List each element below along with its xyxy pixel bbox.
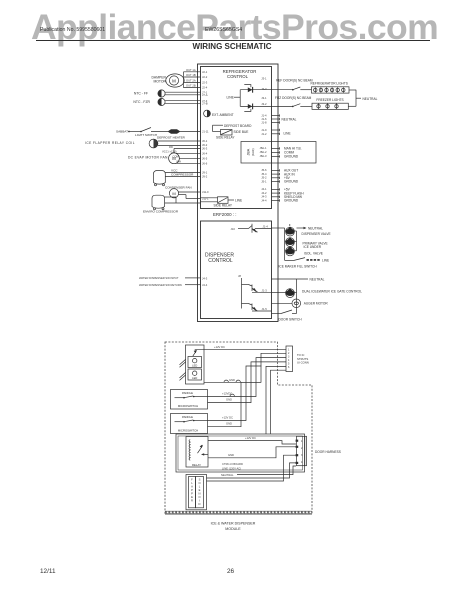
svg-text:J4-4: J4-4 bbox=[202, 283, 208, 287]
svg-text:J1-3: J1-3 bbox=[262, 288, 268, 292]
dc evap motor fan M2 bbox=[128, 145, 201, 164]
svg-text:E: E bbox=[199, 488, 201, 492]
dispenser control box bbox=[201, 221, 272, 319]
svg-text:J4-4: J4-4 bbox=[261, 198, 267, 202]
svg-text:LINE: LINE bbox=[322, 258, 329, 262]
svg-text:(AUX): (AUX) bbox=[251, 148, 255, 156]
dispenser valve stack bbox=[272, 224, 331, 260]
paddle microswitch 2 bbox=[171, 414, 208, 434]
svg-text:MODULE: MODULE bbox=[225, 527, 241, 531]
outer control enclosure bbox=[198, 64, 279, 322]
svg-text:O: O bbox=[198, 481, 200, 485]
svg-text:J4-3: J4-3 bbox=[202, 276, 208, 280]
led assembly box bbox=[180, 345, 205, 384]
svg-text:J6-4: J6-4 bbox=[202, 151, 208, 155]
svg-text:ICE MAKER FILL SWITCH: ICE MAKER FILL SWITCH bbox=[279, 264, 318, 268]
svg-text:LIGHT SWITCH: LIGHT SWITCH bbox=[135, 133, 157, 137]
svg-text:DISPENSER VALVE: DISPENSER VALVE bbox=[302, 232, 331, 236]
svg-text:J4-3: J4-3 bbox=[261, 195, 267, 199]
svg-text:J1-5: J1-5 bbox=[262, 307, 268, 311]
condenser fan M3 bbox=[165, 186, 201, 199]
header rule bbox=[36, 40, 430, 42]
svg-text:COM: COM bbox=[173, 155, 180, 159]
svg-text:EXT. AMBIENT: EXT. AMBIENT bbox=[212, 113, 234, 117]
svg-text:N: N bbox=[199, 492, 201, 496]
svg-text:DOOR SWITCH: DOOR SWITCH bbox=[279, 317, 303, 321]
svg-text:E: E bbox=[191, 495, 193, 499]
svg-text:GND: GND bbox=[229, 378, 235, 382]
svg-text:J5-2: J5-2 bbox=[261, 176, 267, 180]
svg-text:DEFROST HEATER: DEFROST HEATER bbox=[157, 135, 186, 139]
svg-text:NTC - FZR: NTC - FZR bbox=[133, 100, 150, 104]
svg-text:S: S bbox=[199, 478, 201, 482]
dispenser neutral bus bbox=[272, 278, 325, 314]
svg-text:DOOR HARNESS: DOOR HARNESS bbox=[315, 450, 341, 454]
refrigerator control box bbox=[201, 67, 272, 209]
svg-text:UI CONN: UI CONN bbox=[297, 361, 309, 365]
svg-text:GND: GND bbox=[226, 398, 232, 402]
control board box bbox=[176, 434, 305, 472]
svg-text:J6-2: J6-2 bbox=[202, 143, 208, 147]
svg-text:EW26SS65GS4: EW26SS65GS4 bbox=[205, 27, 242, 33]
defrost board bbox=[213, 124, 253, 132]
J8A connector box bbox=[241, 142, 316, 164]
svg-text:J5-4: J5-4 bbox=[261, 172, 267, 176]
svg-text:WH: WH bbox=[177, 160, 182, 164]
refrigerator door beam switch bbox=[272, 78, 313, 90]
svg-text:+12V DC: +12V DC bbox=[214, 345, 225, 349]
bottom left connector bbox=[186, 475, 207, 510]
svg-text:OUT 2B: OUT 2B bbox=[186, 84, 196, 88]
svg-text:RELAY: RELAY bbox=[192, 463, 201, 467]
svg-text:DEFROST BOARD: DEFROST BOARD bbox=[224, 124, 252, 128]
svg-text:J1-6: J1-6 bbox=[261, 117, 267, 121]
svg-text:ERF2000 : :: ERF2000 : : bbox=[213, 212, 236, 217]
svg-text:J11-0: J11-0 bbox=[202, 190, 209, 194]
svg-text:DC EVAP MOTOR FAN: DC EVAP MOTOR FAN bbox=[128, 156, 168, 160]
svg-text:J1-9: J1-9 bbox=[261, 128, 267, 132]
svg-text:J3-2: J3-2 bbox=[261, 102, 267, 106]
svg-text:ISOL. VALVE: ISOL. VALVE bbox=[304, 252, 323, 256]
svg-text:NEUTRAL: NEUTRAL bbox=[221, 473, 234, 477]
svg-text:J6-3: J6-3 bbox=[202, 147, 208, 151]
line relay bottom of control bbox=[201, 197, 243, 208]
svg-text:J8: J8 bbox=[238, 274, 241, 278]
svg-text:WIRING SCHEMATIC: WIRING SCHEMATIC bbox=[193, 42, 272, 51]
triac pair inside control (LINE) bbox=[227, 85, 272, 112]
solenoid isolation valve bbox=[286, 249, 295, 255]
svg-text:J2-1: J2-1 bbox=[202, 70, 208, 74]
svg-text:J2-4: J2-4 bbox=[202, 86, 208, 90]
svg-text:P: P bbox=[191, 488, 193, 492]
neutral bracket for lights bbox=[356, 90, 378, 107]
svg-text:LINE: LINE bbox=[284, 131, 291, 135]
thermistor NTC-FZR bbox=[133, 98, 200, 105]
svg-text:M: M bbox=[172, 191, 175, 196]
vcc compressor bbox=[154, 169, 201, 186]
svg-text:OUT 2A: OUT 2A bbox=[186, 79, 196, 83]
dispenser J8 drivers bbox=[238, 274, 272, 311]
svg-text:ICE & WATER DISPENSER: ICE & WATER DISPENSER bbox=[211, 522, 256, 526]
paddle microswitch 1 bbox=[171, 390, 208, 410]
board feed verticals to UI connector bbox=[266, 366, 286, 434]
auger motor bbox=[272, 299, 329, 308]
svg-text:J1-2: J1-2 bbox=[261, 132, 267, 136]
svg-text:Publication No. 5995580601: Publication No. 5995580601 bbox=[40, 27, 105, 33]
svg-text:NTC - FF: NTC - FF bbox=[134, 92, 148, 96]
damper motor M1 bbox=[151, 74, 184, 87]
door harness connector bbox=[296, 436, 341, 465]
enviro compressor bbox=[143, 195, 201, 213]
svg-text:OUT 1A: OUT 1A bbox=[186, 68, 196, 72]
svg-text:AUGER MOTOR: AUGER MOTOR bbox=[304, 302, 329, 306]
svg-text:CTRC-III BOARD: CTRC-III BOARD bbox=[222, 462, 243, 466]
ice maker fill switch bbox=[279, 258, 330, 269]
svg-text:J6-5: J6-5 bbox=[202, 156, 208, 160]
dispenser left input labels bbox=[139, 276, 208, 287]
wire strain relief bumps bbox=[224, 380, 228, 382]
svg-text:J5-1: J5-1 bbox=[261, 179, 267, 183]
svg-text:SIDE RELAY: SIDE RELAY bbox=[216, 136, 235, 140]
UI connector bbox=[286, 346, 309, 372]
svg-text:GND: GND bbox=[226, 422, 232, 426]
svg-text:+12VDC: +12VDC bbox=[222, 392, 232, 396]
svg-text:J1-4: J1-4 bbox=[261, 114, 267, 118]
thermistor NTC-FF bbox=[134, 90, 201, 97]
svg-text:ICE FLAPPER RELAY COIL: ICE FLAPPER RELAY COIL bbox=[85, 141, 135, 145]
svg-text:DUAL ICE&WATER ICE GATE CONTRO: DUAL ICE&WATER ICE GATE CONTROL bbox=[302, 289, 362, 293]
svg-text:J6-1: J6-1 bbox=[202, 139, 208, 143]
svg-text:CONTROL: CONTROL bbox=[208, 258, 233, 264]
svg-text:FREEZER LIGHTS: FREEZER LIGHTS bbox=[316, 98, 343, 102]
svg-text:J8A-1: J8A-1 bbox=[259, 146, 267, 150]
svg-text:GND: GND bbox=[228, 453, 234, 457]
svg-text:PADDLE: PADDLE bbox=[182, 415, 193, 419]
svg-text:LED: LED bbox=[192, 376, 197, 380]
svg-text:GROUND: GROUND bbox=[284, 199, 299, 203]
svg-text:J3-1: J3-1 bbox=[261, 96, 267, 100]
svg-text:J4-1: J4-1 bbox=[261, 187, 267, 191]
ext ambient sensor bbox=[204, 110, 234, 117]
svg-text:SIDE RELAY: SIDE RELAY bbox=[214, 204, 233, 208]
module enclosure bbox=[165, 342, 312, 514]
svg-text:12/11: 12/11 bbox=[40, 568, 56, 575]
svg-text:J7-A: J7-A bbox=[202, 93, 208, 97]
svg-text:D: D bbox=[199, 502, 201, 506]
damper motor wires OUT1A/1B/2A/2B bbox=[184, 68, 201, 88]
svg-text:J3-1: J3-1 bbox=[261, 76, 267, 80]
svg-text:NEUTRAL: NEUTRAL bbox=[363, 97, 378, 101]
svg-text:MICROSWITCH: MICROSWITCH bbox=[178, 428, 198, 432]
J4 pin function labels bbox=[284, 188, 304, 203]
svg-text:MOTOR: MOTOR bbox=[153, 80, 166, 84]
svg-text:PADDLE: PADDLE bbox=[182, 391, 193, 395]
dispenser door switch bbox=[272, 310, 303, 321]
svg-text:J9-1: J9-1 bbox=[202, 171, 208, 175]
svg-text:LINE: LINE bbox=[227, 95, 235, 99]
dual ice and water valve bbox=[272, 288, 363, 297]
svg-text:J1-8: J1-8 bbox=[261, 121, 267, 125]
svg-text:J6-6: J6-6 bbox=[202, 161, 208, 165]
solenoid dispenser valve bbox=[286, 229, 295, 235]
svg-text:J8A: J8A bbox=[246, 148, 251, 155]
svg-text:P: P bbox=[191, 492, 193, 496]
svg-text:O: O bbox=[198, 495, 200, 499]
svg-text:OUT 1B: OUT 1B bbox=[186, 73, 196, 77]
svg-text:J10: J10 bbox=[231, 227, 236, 231]
svg-text:LED: LED bbox=[192, 364, 197, 368]
svg-text:ENVIRO COMPRESSOR: ENVIRO COMPRESSOR bbox=[143, 209, 179, 213]
svg-text:NEUTRAL: NEUTRAL bbox=[308, 226, 323, 230]
refrigerator lights box bbox=[311, 82, 357, 93]
svg-text:CONTROL: CONTROL bbox=[227, 74, 249, 79]
svg-text:A: A bbox=[191, 485, 193, 489]
freezer door beam switch bbox=[272, 96, 313, 107]
svg-text:WATER DISPENSER SW INPUT: WATER DISPENSER SW INPUT bbox=[139, 276, 179, 280]
svg-text:GROUND: GROUND bbox=[284, 180, 299, 184]
svg-text:J1-11: J1-11 bbox=[202, 130, 209, 134]
bottom connector wires bbox=[207, 463, 297, 478]
svg-text:26: 26 bbox=[227, 568, 235, 575]
svg-text:MICROSWITCH: MICROSWITCH bbox=[178, 404, 198, 408]
svg-text:J2-2: J2-2 bbox=[202, 75, 208, 79]
svg-text:SIDE BUE: SIDE BUE bbox=[234, 130, 249, 134]
flapper relay coil bbox=[85, 139, 201, 148]
svg-text:ICE UNDER: ICE UNDER bbox=[304, 245, 322, 249]
svg-text:GROUND: GROUND bbox=[284, 155, 299, 159]
svg-text:LINE (120V AC): LINE (120V AC) bbox=[222, 467, 241, 471]
svg-text:REF DOOR(S) NC BEAM: REF DOOR(S) NC BEAM bbox=[276, 78, 313, 82]
svg-text:J2-3: J2-3 bbox=[202, 81, 208, 85]
svg-text:VCC (+12V): VCC (+12V) bbox=[162, 150, 177, 154]
svg-text:CONDENSER FAN: CONDENSER FAN bbox=[165, 186, 192, 190]
left pin labels column refrigerator box bbox=[202, 70, 209, 201]
svg-text:NEUTRAL: NEUTRAL bbox=[310, 278, 325, 282]
J5 pin function labels bbox=[284, 169, 299, 184]
freezer lights box bbox=[312, 98, 356, 109]
svg-text:J3-3: J3-3 bbox=[261, 87, 267, 91]
svg-text:NEUTRAL: NEUTRAL bbox=[282, 117, 297, 121]
side relay (defrost) bbox=[216, 130, 248, 140]
svg-text:+12V DC: +12V DC bbox=[222, 416, 233, 420]
right pin labels refrigerator box bbox=[259, 76, 267, 202]
svg-text:LINE: LINE bbox=[235, 199, 242, 203]
svg-text:REFRIGERATOR LIGHTS: REFRIGERATOR LIGHTS bbox=[311, 82, 348, 86]
svg-text:J7-B: J7-B bbox=[202, 101, 208, 105]
solenoid primary valve bbox=[286, 239, 295, 245]
led arrows bbox=[180, 359, 186, 365]
right pin ticks refrigerator box bbox=[272, 114, 280, 201]
svg-text:J4-2: J4-2 bbox=[261, 191, 267, 195]
svg-text:WATER DISPENSER SW RETURN: WATER DISPENSER SW RETURN bbox=[139, 283, 182, 287]
svg-text:J8A-2: J8A-2 bbox=[259, 150, 267, 154]
svg-text:+12V DC: +12V DC bbox=[245, 436, 256, 440]
dispenser J10 driver bbox=[231, 224, 272, 233]
svg-text:J9-2: J9-2 bbox=[202, 175, 208, 179]
svg-text:J5-6: J5-6 bbox=[261, 168, 267, 172]
sabbath light switch bbox=[116, 128, 168, 138]
svg-text:J11-1: J11-1 bbox=[202, 197, 209, 201]
svg-text:M: M bbox=[172, 78, 176, 83]
svg-text:J1-4: J1-4 bbox=[263, 225, 269, 229]
svg-text:FRZ DOOR(S) NC BEAM: FRZ DOOR(S) NC BEAM bbox=[275, 96, 312, 100]
relay box bbox=[186, 437, 208, 468]
defrost heater (thermal cutout) bbox=[157, 130, 201, 140]
svg-text:COMPRESSOR: COMPRESSOR bbox=[171, 173, 194, 177]
module bottom hatched edge bbox=[165, 511, 312, 514]
svg-text:RD: RD bbox=[169, 145, 173, 149]
svg-text:R: R bbox=[191, 499, 193, 503]
svg-text:J8A-3: J8A-3 bbox=[259, 154, 267, 158]
